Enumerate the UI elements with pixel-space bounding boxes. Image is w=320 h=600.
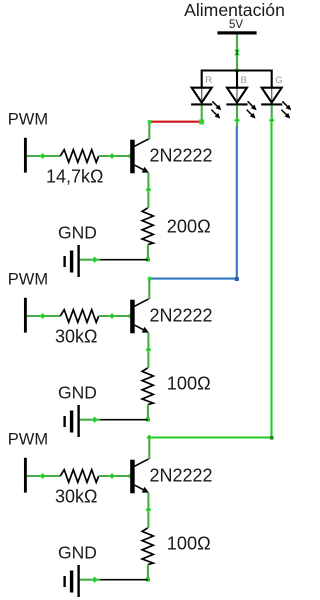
node: blue wire to Q2 collector corner <box>148 277 152 281</box>
ground stub wire (green) <box>79 419 100 421</box>
ground rail wire (black) <box>100 419 148 421</box>
junction bendpoint on LED G cathode <box>269 117 275 123</box>
svg-text:200Ω: 200Ω <box>167 216 211 236</box>
LED G cathode bar <box>261 103 282 105</box>
LED R light arrow 1 <box>212 101 218 107</box>
wire resistor R1 to base of Q1 <box>99 155 131 157</box>
wire Q3 collector vertical <box>148 438 150 460</box>
ground stub wire (green) <box>79 259 100 261</box>
LED B triangle <box>227 88 247 103</box>
transistor Q1 emitter arrow <box>142 167 149 173</box>
corner connection point at ground rail <box>146 577 150 581</box>
wire resistor R2 to ground rail <box>147 245 149 260</box>
svg-text:PWM: PWM <box>8 110 48 128</box>
svg-text:Alimentación: Alimentación <box>184 0 285 20</box>
junction bendpoint on base wire (right) <box>109 313 115 319</box>
PWM input terminal 2 <box>24 298 27 333</box>
junction bendpoint on LED B cathode <box>234 117 240 123</box>
wire PWM terminal to resistor R1 <box>27 155 61 157</box>
base pin connection point of Q1 <box>129 154 133 158</box>
PWM input terminal 1 <box>24 138 27 173</box>
junction bendpoint on base wire (right) <box>109 473 115 479</box>
resistor R6 zigzag <box>142 528 153 565</box>
svg-text:GND: GND <box>58 543 97 563</box>
wire PWM terminal to resistor R3 <box>27 315 61 317</box>
node: LED R cathode connection <box>199 119 204 124</box>
wire emitter of Q2 to resistor R4 <box>147 333 149 368</box>
LED B light arrow 1 <box>248 101 254 107</box>
svg-text:GND: GND <box>58 223 97 243</box>
wire LED anode rail (black) <box>202 71 272 88</box>
ground symbol 2 <box>63 416 65 427</box>
corner connection point at ground rail <box>146 417 150 421</box>
PWM input terminal 3 <box>24 458 27 493</box>
transistor Q1 base bar <box>130 140 135 174</box>
ground rail wire (black) <box>100 579 148 581</box>
ground symbol 3 <box>63 576 65 587</box>
transistor Q3 emitter arrow <box>142 487 149 493</box>
svg-text:PWM: PWM <box>8 430 48 448</box>
junction bendpoint on base wire (right) <box>109 153 115 159</box>
LED G light arrow 1 <box>282 101 288 107</box>
wire resistor R3 to base of Q2 <box>99 315 131 317</box>
transistor Q3 emitter lead <box>135 485 147 491</box>
bendpoint at green wire corner <box>270 436 274 440</box>
base pin connection point of Q2 <box>129 314 133 318</box>
junction bendpoint on emitter wire <box>145 187 151 193</box>
junction bendpoint on ground wire <box>91 577 97 583</box>
transistor Q3 collector lead <box>135 459 149 466</box>
svg-text:2N2222: 2N2222 <box>150 305 213 325</box>
junction bendpoint on ground wire <box>91 257 97 263</box>
svg-text:30kΩ: 30kΩ <box>55 487 97 507</box>
transistor Q2 collector lead <box>135 299 149 306</box>
transistor Q3 base bar <box>130 460 135 494</box>
svg-text:PWM: PWM <box>8 270 48 288</box>
transistor Q1 emitter lead <box>135 165 147 171</box>
junction bendpoint on base wire (left) <box>40 153 46 159</box>
node: 5V wire to anode rail junction <box>235 69 239 73</box>
LED G light arrow 2 <box>281 110 287 116</box>
wire green: LED G cathode down to Q3 (vertical) <box>270 120 272 437</box>
resistor R4 zigzag <box>142 368 153 405</box>
LED R cathode bar <box>191 103 212 105</box>
svg-text:100Ω: 100Ω <box>167 374 211 394</box>
double bendpoint marker on 5V wire <box>234 48 239 53</box>
bendpoint on blue wire corner <box>235 277 239 281</box>
resistor R1 zigzag <box>60 150 98 163</box>
junction bendpoint on base wire (left) <box>40 313 46 319</box>
ground symbol 1 <box>63 256 65 267</box>
svg-text:G: G <box>275 75 282 86</box>
wire 5V supply down to LED anode rail <box>236 35 238 73</box>
wire Q2 collector vertical <box>148 279 150 300</box>
base pin connection point of Q3 <box>129 474 133 478</box>
LED R light arrow 2 <box>211 110 217 116</box>
junction bendpoint on ground wire <box>91 417 97 423</box>
LED B light arrow 2 <box>247 110 253 116</box>
wire resistor R4 to ground rail <box>147 405 149 420</box>
node: green wire to Q3 collector corner <box>146 435 152 441</box>
wire green: horizontal to Q3 collector <box>150 436 272 438</box>
transistor Q2 base bar <box>130 300 135 334</box>
node: red wire to Q1 collector corner <box>148 120 152 124</box>
LED R triangle <box>192 88 212 103</box>
ground rail wire (black) <box>100 259 148 261</box>
transistor Q2 emitter lead <box>135 325 147 331</box>
junction bendpoint on emitter wire <box>145 347 151 353</box>
wire LED B cathode lead <box>236 105 238 127</box>
wire LED G cathode lead <box>271 105 273 121</box>
wire PWM terminal to resistor R5 <box>27 475 61 477</box>
transistor Q2 emitter arrow <box>142 327 149 333</box>
corner connection point at ground rail <box>146 257 150 261</box>
LED R anode lead <box>201 89 203 103</box>
svg-text:30kΩ: 30kΩ <box>55 327 97 347</box>
wire LED R cathode lead <box>201 105 203 124</box>
transistor Q1 collector lead <box>135 139 149 146</box>
svg-text:2N2222: 2N2222 <box>150 145 213 165</box>
junction bendpoint on emitter wire <box>145 507 151 513</box>
power supply rail symbol <box>217 31 256 34</box>
resistor R5 zigzag <box>60 470 98 483</box>
LED G triangle <box>262 88 282 103</box>
resistor R3 zigzag <box>60 310 98 323</box>
wire resistor R6 to ground rail <box>147 565 149 580</box>
LED B cathode bar <box>226 103 247 105</box>
wire resistor R5 to base of Q3 <box>99 475 131 477</box>
LED B anode lead <box>236 89 238 103</box>
wire emitter of Q1 to resistor R2 <box>147 173 149 208</box>
svg-text:GND: GND <box>58 383 97 403</box>
wire red: LED R cathode to Q1 collector <box>150 121 201 123</box>
junction bendpoint on base wire (left) <box>40 473 46 479</box>
wire blue: LED B cathode to Q2 collector <box>151 127 237 279</box>
svg-text:5V: 5V <box>229 19 243 31</box>
resistor R2 zigzag <box>142 208 153 245</box>
LED G anode lead <box>271 89 273 103</box>
wire emitter of Q3 to resistor R6 <box>147 493 149 528</box>
wire Q1 collector vertical <box>148 122 150 140</box>
svg-text:B: B <box>241 75 247 86</box>
svg-text:14,7kΩ: 14,7kΩ <box>46 167 104 187</box>
svg-text:R: R <box>205 75 212 86</box>
svg-text:100Ω: 100Ω <box>167 534 211 554</box>
ground stub wire (green) <box>79 579 100 581</box>
svg-text:2N2222: 2N2222 <box>150 465 213 485</box>
